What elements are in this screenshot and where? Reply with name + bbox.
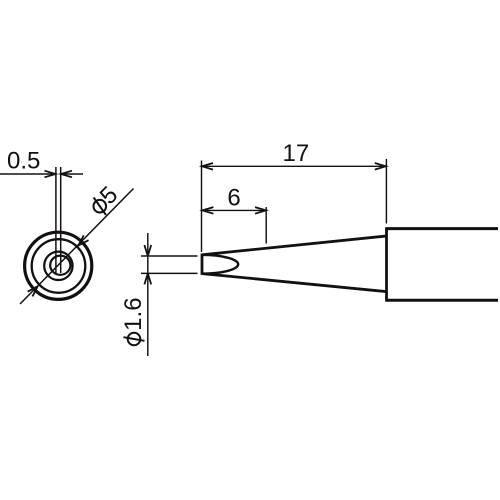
slot edge / extension line right xyxy=(60,167,62,273)
label dia1.6 xyxy=(120,297,147,345)
dim 17 arrow left xyxy=(202,163,213,170)
dia1.6 extension line top xyxy=(141,255,198,257)
dim 17 arrow right xyxy=(375,163,386,170)
middle circle (dia 5) xyxy=(32,239,86,293)
tip face left edge xyxy=(201,254,204,275)
dim 6 extension line right xyxy=(265,207,267,244)
svg-text:17: 17 xyxy=(283,140,310,167)
cylinder body left edge xyxy=(385,227,388,301)
dia1.6 extension line bottom xyxy=(141,272,198,274)
dimension 0.5 line xyxy=(0,173,83,175)
tip end ellipse xyxy=(50,256,70,275)
taper top line xyxy=(202,236,387,255)
dim 17 line xyxy=(202,165,386,167)
svg-text:1.6: 1.6 xyxy=(120,297,147,330)
dim 6 line xyxy=(202,209,266,211)
slot edge / extension line left xyxy=(55,167,57,273)
tip chisel face half-ellipse xyxy=(202,255,238,274)
arrow right-pointing at left slot line xyxy=(45,171,56,178)
svg-text:0.5: 0.5 xyxy=(7,147,40,174)
dia1.6 arrow up-pointing xyxy=(144,273,151,284)
dim 17 extension lines xyxy=(201,161,203,253)
arrow left-pointing at right slot line xyxy=(61,171,72,178)
dia5 arrow upper (points down-left at circle) xyxy=(78,235,88,245)
inner circle xyxy=(44,252,72,280)
label dia5 xyxy=(85,181,123,219)
outer circle xyxy=(25,232,92,299)
svg-text:6: 6 xyxy=(227,185,240,212)
dim 6 arrow left xyxy=(202,207,213,214)
cylinder bottom edge xyxy=(387,299,499,302)
taper bottom line xyxy=(202,274,387,292)
dia1.6 dimension vertical line xyxy=(147,233,149,356)
dia5 leader line xyxy=(20,189,134,305)
cylinder top edge xyxy=(387,227,499,230)
dim 6 arrow right xyxy=(255,207,266,214)
dia5 arrow lower (points up-right at circle) xyxy=(28,286,38,296)
dia1.6 arrow down-pointing xyxy=(144,245,151,256)
